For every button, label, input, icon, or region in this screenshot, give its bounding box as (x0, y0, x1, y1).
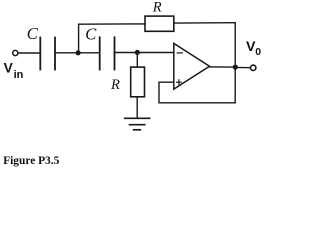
wire op-amp output (210, 66, 236, 68)
op-amp U1 triangle (174, 43, 210, 89)
wire output node to terminal Vo (235, 66, 250, 68)
wire R2 to ground (136, 97, 138, 119)
wire C2 to op-amp inverting input through node B (115, 52, 174, 54)
node B junction dot (135, 50, 140, 55)
wire node A riser to top feedback rail (79, 24, 145, 53)
svg-text:C: C (27, 24, 39, 43)
capacitor C2 plate 2 (114, 37, 116, 69)
capacitor C1 plate 1 (39, 38, 41, 70)
ground symbol (125, 118, 150, 130)
wire right vertical rail (feedback to output) (234, 23, 236, 103)
resistor R2 box (vertical) (131, 67, 145, 97)
svg-text:C: C (85, 25, 97, 44)
wire non-inverting input loop to output rail (159, 82, 235, 103)
wire R1 to right rail (174, 22, 235, 24)
wire C1 to C2 through node A (55, 52, 100, 54)
resistor R1 (feedback) box (145, 16, 174, 31)
svg-text:R: R (110, 77, 120, 93)
svg-text:in: in (14, 69, 24, 81)
svg-text:Figure P3.5: Figure P3.5 (3, 155, 59, 167)
svg-text:V: V (4, 61, 14, 76)
op-amp minus sign (177, 52, 182, 54)
terminal Vin (13, 50, 18, 55)
terminal Vo (251, 65, 256, 70)
node output junction dot (233, 65, 238, 70)
capacitor C1 plate 2 (54, 38, 56, 70)
svg-text:0: 0 (255, 46, 261, 58)
wire node B down to R2 (136, 52, 138, 67)
op-amp plus sign (177, 80, 182, 85)
capacitor C2 plate 1 (99, 37, 101, 69)
node A junction dot (76, 50, 81, 55)
svg-text:R: R (152, 0, 162, 16)
wire Vin to C1 (18, 52, 40, 54)
